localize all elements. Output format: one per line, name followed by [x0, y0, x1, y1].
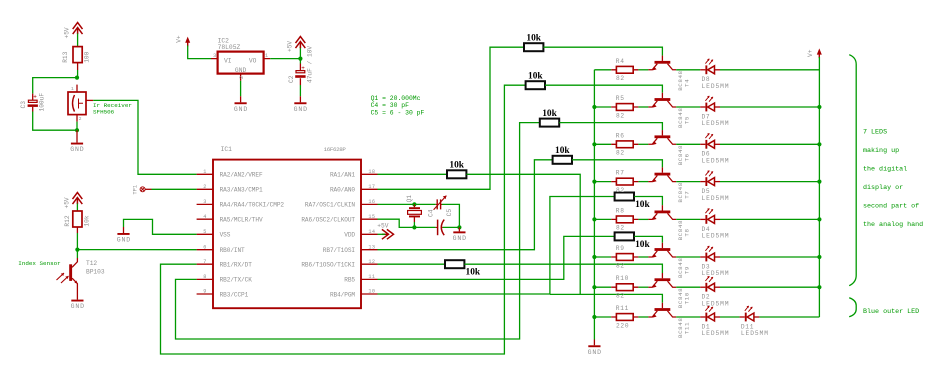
svg-text:R13: R13 [62, 51, 69, 62]
svg-text:16F628P: 16F628P [324, 146, 347, 153]
svg-text:LED5MM: LED5MM [702, 83, 730, 90]
emitter resistor ground rail [593, 70, 595, 340]
wire rail to R11 [594, 316, 611, 318]
svg-text:VO: VO [249, 57, 257, 64]
transistor T10 BC848 [648, 273, 676, 288]
capacitor C2 47uF [295, 64, 305, 86]
wire IR output to IC1 pin1 [93, 100, 196, 174]
svg-text:82: 82 [616, 150, 625, 157]
wire 10k to T7 base [572, 160, 662, 168]
wire VSS ground stem [123, 227, 125, 233]
svg-text:78L05Z: 78L05Z [218, 44, 241, 51]
svg-text:+5V: +5V [377, 223, 388, 230]
svg-text:LED5MM: LED5MM [702, 270, 730, 277]
ground under C2 [294, 102, 308, 113]
ir receiver U2 SFH506 [68, 85, 93, 122]
svg-text:2: 2 [203, 184, 207, 190]
bracket 7 LEDs group [849, 55, 856, 286]
svg-text:making up: making up [863, 147, 899, 155]
node D junction R12/T12/RB0 [75, 248, 79, 252]
svg-text:RA5/MCLR/THV: RA5/MCLR/THV [220, 217, 263, 224]
svg-text:T10: T10 [684, 292, 691, 304]
wire crystal to node F [413, 222, 415, 227]
regulator IC2 78L05Z [211, 52, 270, 81]
svg-text:+5V: +5V [64, 27, 71, 38]
wire D11 to V+ rail [759, 316, 819, 318]
wire rail to R5 [594, 106, 611, 108]
wire 10k to T5 base [545, 85, 662, 93]
svg-text:6: 6 [203, 244, 207, 250]
svg-text:10k: 10k [555, 146, 570, 156]
svg-text:VSS: VSS [220, 232, 231, 239]
transistor T11 BC848 [648, 303, 676, 318]
svg-text:3: 3 [203, 199, 207, 205]
wire rail to ground [593, 340, 595, 346]
svg-text:T9: T9 [684, 266, 691, 274]
wire RB6 pin12 to 10k [378, 263, 446, 265]
svg-text:10k: 10k [449, 160, 464, 170]
wire T7 collector to D5 [676, 181, 700, 183]
svg-text:RB6/T1OSO/T1CKI: RB6/T1OSO/T1CKI [301, 262, 355, 269]
wire TP1 to IC1 pin2 [152, 188, 197, 190]
svg-text:82: 82 [616, 75, 625, 82]
wire R9 to T9 emitter [638, 256, 648, 258]
wire IC2 VO to +5V node [270, 58, 300, 60]
wire IC1 VSS to ground [124, 219, 197, 234]
svg-text:RB4/PGM: RB4/PGM [330, 291, 355, 298]
wire T8 collector to D4 [676, 218, 700, 220]
wire 10k to T6 base [559, 123, 662, 131]
svg-text:RA1/AN1: RA1/AN1 [330, 172, 355, 179]
wire rail to R8 [594, 218, 611, 220]
svg-text:15: 15 [368, 214, 375, 220]
wire D3 to V+ rail [720, 256, 819, 258]
wire RB4 pin10 to riser [378, 197, 615, 295]
svg-text:V+: V+ [175, 35, 182, 43]
testpoint TP1 [140, 187, 151, 192]
wire 10k down to T11 riser [466, 174, 580, 294]
ground under T12 [71, 300, 85, 311]
resistor R5 [611, 104, 638, 111]
svg-text:VDD: VDD [344, 232, 355, 239]
junction V+ rail row 7 [817, 285, 821, 289]
wire node C up to +5V arrow [299, 47, 301, 59]
svg-text:+5V: +5V [63, 197, 70, 208]
svg-text:+5V: +5V [286, 41, 293, 52]
node F crystal bottom [412, 225, 416, 229]
svg-text:R4: R4 [616, 58, 625, 65]
svg-text:GND: GND [234, 106, 248, 113]
resistor R4 [611, 66, 638, 73]
wire T6 collector to D6 [676, 143, 700, 145]
svg-text:IC1: IC1 [221, 146, 233, 153]
wire D4 to V+ rail [720, 218, 819, 220]
wire T12 emitter to ground [76, 294, 78, 300]
transistor T9 BC848 [648, 243, 676, 258]
svg-text:C2: C2 [288, 75, 295, 83]
wire IC1 pin15 OSC2 jog [378, 219, 415, 227]
wire +5V arrow to R12 [76, 204, 78, 212]
wire node D to IC1 pin6 [77, 249, 196, 251]
resistor R12 [73, 211, 82, 233]
svg-text:Index Sensor: Index Sensor [18, 260, 60, 267]
wire C2 ground stem [299, 96, 301, 102]
wire 10k to T4 base [543, 47, 662, 55]
wire node D to T12 collector [76, 250, 78, 258]
svg-text:RA7/OSC1/CLKIN: RA7/OSC1/CLKIN [305, 202, 355, 209]
svg-text:13: 13 [368, 244, 375, 250]
svg-text:82: 82 [616, 112, 625, 119]
svg-text:the analog hand: the analog hand [863, 221, 923, 229]
wire R5 to T5 emitter [638, 106, 648, 108]
svg-text:GND: GND [70, 146, 84, 153]
power V+ arrow (LED supply) [817, 48, 822, 58]
junction rail row 5 [592, 217, 596, 221]
svg-text:10k: 10k [526, 34, 541, 44]
led D4 LED5MM [700, 208, 720, 224]
svg-text:R10: R10 [616, 275, 629, 282]
svg-text:8: 8 [203, 274, 207, 280]
svg-text:GND: GND [294, 106, 308, 113]
svg-text:4: 4 [203, 214, 207, 220]
wire VDD to +5V arrow [378, 233, 386, 235]
svg-text:SFH506: SFH506 [93, 109, 115, 116]
svg-text:R11: R11 [616, 305, 629, 312]
svg-text:TP1: TP1 [133, 185, 139, 195]
svg-text:LED5MM: LED5MM [702, 158, 730, 165]
svg-text:second part of: second part of [863, 202, 919, 210]
svg-text:RB1/RX/DT: RB1/RX/DT [220, 262, 253, 269]
wire R4 to T4 emitter [638, 69, 648, 71]
wire C2 to ground [299, 85, 301, 96]
resistor R7 [611, 178, 638, 185]
wire D6 to V+ rail [720, 143, 819, 145]
resistor 10k (T4 base) [524, 34, 543, 52]
led D8 LED5MM [700, 59, 720, 75]
svg-text:+: + [301, 65, 305, 72]
svg-text:V+: V+ [807, 49, 814, 57]
wire R13 to node A [77, 70, 79, 78]
svg-text:T6: T6 [684, 153, 691, 161]
junction V+ rail row 4 [817, 180, 821, 184]
resistor 10k (T8 base) [615, 193, 651, 210]
wire node G to ground [458, 227, 460, 231]
junction rail row 2 [592, 105, 596, 109]
node B junction IR/C3/GND [75, 128, 79, 132]
svg-text:7 LEDS: 7 LEDS [863, 129, 887, 137]
wire RB5 pin11 to riser [378, 236, 615, 279]
led D2 LED5MM [700, 276, 720, 292]
svg-text:5: 5 [203, 229, 207, 235]
wire T11 collector to D1 [676, 316, 700, 318]
wire rail to R9 [594, 256, 611, 258]
svg-text:RB0/INT: RB0/INT [220, 247, 245, 254]
svg-text:T5: T5 [684, 116, 691, 124]
svg-text:GND: GND [235, 67, 247, 74]
power +5V arrow above R12 [73, 193, 83, 205]
svg-text:RB2/TX/CK: RB2/TX/CK [220, 277, 253, 284]
svg-text:T7: T7 [684, 191, 691, 199]
led D3 LED5MM [700, 246, 720, 262]
svg-text:10k: 10k [635, 200, 650, 210]
svg-text:RA4/RA4/T0CKI/CMP2: RA4/RA4/T0CKI/CMP2 [220, 202, 285, 209]
wire T4 collector to D8 [676, 69, 700, 71]
svg-text:display or: display or [863, 184, 903, 192]
wire R7 to T7 emitter [638, 181, 648, 183]
svg-text:100: 100 [84, 51, 91, 62]
led D1 LED5MM [700, 306, 720, 322]
svg-text:C5 = 6 - 30 pF: C5 = 6 - 30 pF [371, 109, 425, 116]
resistor R11 [611, 314, 638, 321]
svg-text:1: 1 [265, 53, 268, 59]
transistor T5 BC848 [648, 93, 676, 108]
wire R6 to T6 emitter [638, 143, 648, 145]
svg-text:1: 1 [203, 169, 207, 175]
svg-text:10: 10 [368, 289, 375, 295]
resistor 10k (T7 base) [553, 146, 572, 164]
wire RB7 pin13 to riser [378, 160, 553, 250]
svg-text:R9: R9 [616, 245, 625, 252]
wire RA1 pin18 to 10k [378, 173, 448, 175]
wire D7 to V+ rail [720, 106, 819, 108]
power V+ arrow (IC2 input) [185, 37, 190, 47]
svg-text:LED5MM: LED5MM [702, 300, 730, 307]
svg-text:the digital: the digital [863, 165, 907, 173]
junction rail row 6 [592, 255, 596, 259]
svg-text:+: + [33, 93, 37, 100]
svg-text:10k: 10k [466, 268, 481, 278]
junction rail row 8 [592, 315, 596, 319]
junction V+ rail row 5 [817, 217, 821, 221]
resistor R8 [611, 216, 638, 223]
svg-text:R5: R5 [616, 95, 625, 102]
svg-text:9: 9 [203, 289, 207, 295]
transistor T8 BC848 [648, 205, 676, 220]
led D5 LED5MM [700, 170, 720, 186]
junction V+ rail row 6 [817, 255, 821, 259]
svg-text:17: 17 [368, 184, 375, 190]
led D6 LED5MM [700, 133, 720, 149]
wire C4 right to GND node [443, 226, 460, 228]
node G oscillator ground [457, 225, 461, 229]
wire D5 to V+ rail [720, 181, 819, 183]
resistor R6 [611, 141, 638, 148]
svg-text:14: 14 [368, 229, 375, 235]
wire node A to C3 top [33, 78, 77, 94]
ground under IR receiver [70, 143, 84, 154]
led D7 LED5MM [700, 96, 720, 112]
svg-text:47uF / 10V: 47uF / 10V [306, 46, 313, 83]
wire T11 base horizontal [550, 294, 663, 302]
svg-text:2: 2 [239, 76, 245, 79]
svg-text:12: 12 [368, 259, 375, 265]
svg-text:RA2/AN2/VREF: RA2/AN2/VREF [220, 172, 263, 179]
svg-text:BP103: BP103 [86, 268, 105, 275]
svg-text:Blue outer LED: Blue outer LED [863, 308, 919, 316]
svg-text:18: 18 [368, 169, 375, 175]
svg-text:10k: 10k [528, 72, 543, 82]
svg-text:R12: R12 [64, 215, 71, 226]
svg-text:LED5MM: LED5MM [702, 195, 730, 202]
wire +5V arrow to R13 [77, 34, 79, 47]
svg-text:RB5: RB5 [344, 277, 355, 284]
svg-text:R8: R8 [616, 207, 625, 214]
svg-text:GND: GND [453, 235, 467, 242]
junction rail row 7 [592, 285, 596, 289]
crystal Q1 [408, 204, 422, 222]
wire 10k to T8 base [634, 197, 662, 206]
svg-text:C5: C5 [446, 209, 453, 217]
svg-text:RB3/CCP1: RB3/CCP1 [220, 291, 249, 298]
svg-text:RA0/AN0: RA0/AN0 [330, 187, 355, 194]
svg-text:10k: 10k [635, 240, 650, 250]
wire T5 collector to D7 [676, 106, 700, 108]
wire RB1 pin7 around bottom to 10k [161, 85, 526, 354]
wire RB2 pin8 around bottom to 10k [176, 123, 540, 339]
resistor R9 [611, 254, 638, 261]
svg-text:82: 82 [616, 293, 625, 300]
wire R11 to T11 emitter [638, 316, 648, 318]
transistor T4 BC848 [648, 56, 676, 71]
transistor T6 BC848 [648, 130, 676, 145]
power +5V arrow into VDD [382, 229, 394, 239]
svg-text:2: 2 [79, 116, 82, 122]
svg-text:100uF: 100uF [39, 93, 46, 112]
ground at oscillator [453, 231, 467, 242]
svg-text:RA3/AN3/CMP1: RA3/AN3/CMP1 [220, 187, 263, 194]
wire RA0 pin17 to riser [378, 47, 525, 189]
bracket blue outer LED [849, 298, 856, 317]
power +5V arrow above R13 [73, 23, 83, 35]
svg-text:11: 11 [368, 274, 375, 280]
wire rail to R10 [594, 286, 611, 288]
wire R12 to node D [76, 233, 78, 250]
wire rail to R6 [594, 143, 611, 145]
wire rail to R4 [594, 69, 611, 71]
svg-text:10k: 10k [83, 215, 90, 226]
wire V+ to IC2 VI [188, 46, 211, 59]
wire crystal bottom node to C4 [414, 226, 435, 228]
wire node B to ground [76, 130, 78, 142]
wire IC2 GND pin to ground [240, 81, 242, 97]
resistor R10 [611, 284, 638, 291]
svg-text:C4: C4 [428, 209, 435, 217]
capacitor C5 trimmer [434, 196, 447, 210]
svg-text:82: 82 [616, 262, 625, 269]
wire IC1 pin16 OSC1 to crystal node [378, 203, 436, 205]
svg-text:T11: T11 [684, 322, 691, 334]
led D11 LED5MM [740, 306, 760, 322]
svg-text:GND: GND [117, 237, 131, 244]
node E crystal top [412, 202, 416, 206]
wire D8 to V+ rail [720, 69, 819, 71]
capacitor C3 100uF [28, 93, 38, 111]
svg-text:GND: GND [588, 349, 602, 356]
wire D2 to V+ rail [720, 286, 819, 288]
svg-text:RA6/OSC2/CLKOUT: RA6/OSC2/CLKOUT [301, 217, 355, 224]
svg-text:T4: T4 [684, 79, 691, 87]
svg-text:7: 7 [203, 259, 207, 265]
wire C3 bottom to node B [33, 112, 77, 131]
svg-text:T12: T12 [86, 260, 97, 267]
ground under IC2 [234, 102, 248, 113]
resistor 10k (T9 base) [615, 232, 651, 249]
transistor T12 BP103 phototransistor [57, 258, 78, 294]
wire R10 to T10 emitter [638, 286, 648, 288]
svg-text:Q1: Q1 [406, 195, 413, 203]
svg-text:1: 1 [71, 86, 74, 92]
junction V+ rail row 2 [817, 105, 821, 109]
junction rail row 3 [592, 142, 596, 146]
wire IR bottom to node B [76, 122, 78, 131]
svg-text:LED5MM: LED5MM [702, 233, 730, 240]
wire T10 collector to D2 [676, 286, 700, 288]
power +5V arrow (regulator output) [296, 37, 306, 49]
svg-text:LED5MM: LED5MM [702, 330, 730, 337]
resistor 10k (T5 base) [526, 72, 545, 90]
svg-text:10k: 10k [542, 109, 557, 119]
svg-text:VI: VI [224, 57, 232, 64]
svg-text:RB7/T1OSI: RB7/T1OSI [323, 247, 356, 254]
svg-text:LED5MM: LED5MM [741, 330, 769, 337]
resistor 10k (T6 base) [540, 109, 559, 127]
junction rail row 4 [592, 180, 596, 184]
wire T9 collector to D3 [676, 256, 700, 258]
junction V+ rail row 3 [817, 142, 821, 146]
svg-text:C3: C3 [20, 101, 27, 109]
ic IC1 pins and pin labels [197, 169, 378, 298]
resistor 10k (T10 base) [445, 260, 481, 277]
wire R8 to T8 emitter [638, 218, 648, 220]
ic IC1 16F628P box [213, 160, 361, 309]
wire D1 to D11 [720, 316, 740, 318]
svg-text:C4 = 30 pF: C4 = 30 pF [371, 102, 410, 109]
svg-text:220: 220 [616, 322, 629, 329]
capacitor C4 [436, 220, 445, 236]
node C junction IC2 out / C2 / +5V [298, 57, 302, 61]
resistor 10k (T11 base) [447, 160, 466, 178]
wire IC2 ground stem [240, 96, 242, 102]
svg-text:16: 16 [368, 199, 375, 205]
svg-text:82: 82 [616, 187, 625, 194]
svg-text:GND: GND [71, 303, 85, 310]
node A junction R13/C3/IR [75, 76, 79, 80]
wire node C down to C2 [299, 59, 301, 64]
wire rail to R7 [594, 181, 611, 183]
wire 10k to T9 base [634, 236, 662, 242]
resistor R13 [73, 47, 82, 70]
svg-text:LED5MM: LED5MM [702, 120, 730, 127]
svg-text:3: 3 [213, 53, 216, 59]
ground at emitter rail [588, 345, 602, 356]
svg-text:R6: R6 [616, 132, 625, 139]
svg-text:T8: T8 [684, 228, 691, 236]
svg-text:R7: R7 [616, 170, 625, 177]
svg-text:Q1 = 20.000Mc: Q1 = 20.000Mc [371, 95, 421, 102]
svg-text:82: 82 [616, 225, 625, 232]
wire C5 right to GND corner [442, 204, 459, 227]
LED supply V+ rail [818, 57, 820, 317]
transistor T7 BC848 [648, 167, 676, 182]
wire 10k to T10 base [464, 264, 662, 273]
ground at IC1 VSS [117, 233, 131, 244]
